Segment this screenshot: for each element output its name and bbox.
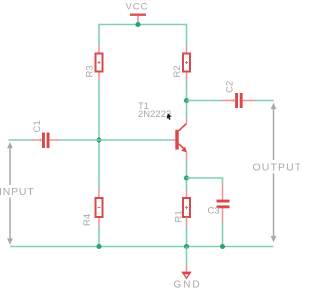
pin C3 bottom	[222, 208, 224, 222]
svg-text:R2: R2	[172, 65, 183, 77]
capacitor C3	[217, 200, 230, 209]
junction emitter node	[184, 175, 189, 180]
svg-text:R4: R4	[82, 214, 93, 226]
polarity mark C1	[39, 139, 42, 142]
wire right drop to R2	[186, 24, 188, 45]
pin C2 left	[221, 100, 235, 102]
wire ground rail	[10, 246, 274, 248]
power symbol VCC	[130, 15, 146, 24]
junction base node	[96, 137, 101, 142]
wire R1 to ground rail	[186, 227, 188, 247]
polarity mark C2	[232, 99, 235, 102]
svg-text:INPUT: INPUT	[0, 186, 35, 198]
wire C3 to ground rail	[222, 222, 224, 247]
wire input row	[9, 139, 32, 141]
svg-text:R3: R3	[85, 65, 96, 77]
junction VCC node	[135, 22, 140, 27]
junction rail R1	[184, 244, 189, 249]
wire top rail VCC	[99, 24, 187, 26]
resistor R2	[183, 54, 190, 72]
svg-text:GND: GND	[174, 280, 202, 291]
pin C1 right	[50, 139, 60, 141]
pin R4 bottom	[98, 218, 100, 227]
resistor R4	[96, 198, 103, 217]
wire left drop to R3	[98, 24, 100, 45]
wire collector row to C2	[187, 100, 222, 102]
svg-text:C1: C1	[32, 120, 43, 132]
pin R3 bottom	[98, 73, 100, 82]
pin R1 bottom	[186, 217, 188, 227]
wire C1 to base	[60, 139, 172, 141]
svg-text:C3: C3	[208, 206, 220, 217]
svg-text:OUTPUT: OUTPUT	[253, 162, 301, 174]
svg-text:2N2222: 2N2222	[138, 109, 171, 120]
pin R4 top	[98, 189, 100, 198]
resistor R3	[96, 54, 103, 72]
wire collector column	[186, 82, 188, 119]
pin C3 top	[222, 184, 224, 200]
pin C2 right	[243, 100, 255, 102]
resistor R1	[183, 198, 190, 217]
capacitor C2	[235, 93, 242, 108]
wire base column	[98, 81, 100, 189]
wire emitter column	[186, 162, 188, 191]
capacitor C1	[42, 133, 50, 149]
wire ground stub	[186, 247, 188, 266]
port INPUT	[0, 142, 35, 245]
pin R3 top	[98, 45, 100, 53]
pin C1 left	[32, 139, 43, 141]
wire emitter row to C3	[187, 178, 223, 184]
wire R4 to ground rail	[98, 227, 100, 247]
junction collector node	[184, 98, 189, 103]
svg-text:VCC: VCC	[125, 2, 148, 13]
port OUTPUT	[253, 103, 303, 242]
transistor T1	[172, 119, 187, 162]
pin R2 bottom	[186, 73, 188, 82]
svg-text:R1: R1	[174, 210, 185, 222]
junction rail R4	[96, 244, 101, 249]
mouse cursor artifact	[167, 113, 172, 120]
pin R1 top	[186, 190, 188, 198]
wire C2 to output	[255, 100, 274, 102]
pin R2 top	[186, 45, 188, 53]
ground symbol GND	[181, 266, 192, 280]
junction rail C3	[220, 244, 225, 249]
svg-text:C2: C2	[225, 81, 236, 93]
